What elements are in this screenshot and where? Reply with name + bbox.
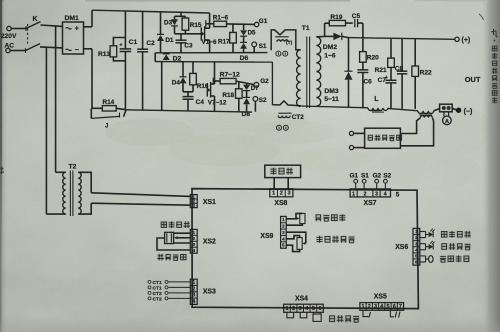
svg-text:6: 6 <box>415 260 418 265</box>
svg-text:CT1: CT1 <box>153 285 162 291</box>
svg-text:R21: R21 <box>375 67 387 74</box>
svg-text:K: K <box>33 16 38 23</box>
svg-text:L: L <box>374 96 379 103</box>
svg-text:R20: R20 <box>367 54 379 61</box>
svg-text:C6: C6 <box>363 78 372 85</box>
svg-text:1: 1 <box>361 304 364 310</box>
svg-text:D3: D3 <box>164 20 173 27</box>
svg-text:V1−6: V1−6 <box>202 39 217 46</box>
svg-text:A: A <box>445 119 449 125</box>
svg-text:1: 1 <box>415 229 418 234</box>
svg-text:D2: D2 <box>173 56 182 63</box>
svg-text:G1: G1 <box>350 173 359 180</box>
svg-text:3: 3 <box>192 293 195 299</box>
svg-text:2: 2 <box>368 304 371 310</box>
svg-text:3: 3 <box>299 306 302 312</box>
svg-text:2: 2 <box>364 191 367 197</box>
svg-text:2: 2 <box>280 191 283 197</box>
svg-text:DM1: DM1 <box>65 15 80 22</box>
svg-text:R13: R13 <box>98 51 110 58</box>
svg-text:C3: C3 <box>184 42 193 49</box>
svg-text:R15: R15 <box>190 22 202 29</box>
svg-text:−: − <box>75 47 79 54</box>
svg-text:R14: R14 <box>103 99 115 106</box>
svg-text:(+): (+) <box>462 37 471 44</box>
svg-text:CT2: CT2 <box>153 291 162 297</box>
svg-text:R18: R18 <box>222 92 234 99</box>
svg-text:2: 2 <box>292 306 295 312</box>
svg-text:G2: G2 <box>260 78 269 85</box>
svg-text:C1: C1 <box>129 39 138 46</box>
svg-text:3: 3 <box>374 304 377 310</box>
svg-text:4: 4 <box>415 247 418 252</box>
svg-text:R22: R22 <box>420 69 432 76</box>
svg-text:C4: C4 <box>196 99 205 106</box>
svg-text:S2: S2 <box>383 173 391 180</box>
svg-text:OUT: OUT <box>465 75 481 84</box>
svg-text:C7: C7 <box>378 77 387 84</box>
svg-text:XS9: XS9 <box>260 233 273 240</box>
svg-text:DM2: DM2 <box>323 44 338 51</box>
svg-text:2: 2 <box>192 236 195 242</box>
svg-text:XS8: XS8 <box>274 200 287 207</box>
svg-text:5: 5 <box>312 306 315 312</box>
svg-text:XS5: XS5 <box>374 294 387 301</box>
svg-text:G1: G1 <box>259 18 268 25</box>
svg-text:4: 4 <box>192 299 195 305</box>
svg-text:D1: D1 <box>165 37 174 44</box>
svg-text:R19: R19 <box>330 14 342 21</box>
svg-text:J: J <box>105 124 108 130</box>
svg-text:XS4: XS4 <box>295 295 308 302</box>
svg-text:D5: D5 <box>248 30 256 37</box>
svg-text:D7: D7 <box>251 85 259 92</box>
svg-text:1: 1 <box>192 280 195 286</box>
svg-text:D4: D4 <box>172 80 181 87</box>
svg-text:3: 3 <box>288 191 291 197</box>
svg-text:3: 3 <box>415 241 418 246</box>
svg-text:CT2: CT2 <box>292 114 304 121</box>
svg-text:XS2: XS2 <box>203 239 216 246</box>
svg-text:220V: 220V <box>1 33 17 40</box>
svg-text:D6: D6 <box>240 55 249 62</box>
svg-text:T2: T2 <box>69 164 77 171</box>
svg-text:T1: T1 <box>302 25 310 32</box>
svg-text:XS6: XS6 <box>395 244 408 251</box>
svg-text:6: 6 <box>318 306 321 312</box>
svg-text:DM3: DM3 <box>324 88 339 95</box>
svg-text:C5: C5 <box>352 13 361 20</box>
svg-text:CT2: CT2 <box>153 296 162 302</box>
svg-text:XS1: XS1 <box>203 199 216 206</box>
svg-text:5: 5 <box>415 254 418 259</box>
svg-text:1−6: 1−6 <box>324 52 335 59</box>
svg-text:S2: S2 <box>259 97 267 104</box>
svg-text:1: 1 <box>272 191 275 197</box>
svg-text:1: 1 <box>192 230 195 236</box>
svg-text:5: 5 <box>386 304 389 310</box>
svg-text:7: 7 <box>399 304 402 310</box>
svg-text:S1: S1 <box>361 173 369 180</box>
svg-text:AC: AC <box>5 43 15 50</box>
svg-text:4: 4 <box>384 191 387 197</box>
svg-text:5: 5 <box>396 191 400 198</box>
svg-text:1: 1 <box>352 191 355 197</box>
svg-text:S1: S1 <box>259 43 267 50</box>
svg-text:C2: C2 <box>146 40 155 47</box>
svg-text:CT1: CT1 <box>153 280 162 286</box>
svg-text:2: 2 <box>415 235 418 240</box>
svg-text:XS7: XS7 <box>364 200 377 207</box>
svg-text:C8: C8 <box>395 65 404 72</box>
svg-text:XS3: XS3 <box>203 289 216 296</box>
svg-text:4: 4 <box>192 248 195 254</box>
svg-text:3: 3 <box>375 191 378 197</box>
svg-text:R7−12: R7−12 <box>220 71 240 78</box>
svg-text:6: 6 <box>393 304 396 310</box>
svg-text:3: 3 <box>192 242 195 248</box>
svg-text:(−): (−) <box>464 108 473 115</box>
svg-text:V7−12: V7−12 <box>208 100 227 107</box>
svg-text:5−11: 5−11 <box>324 96 339 103</box>
svg-text:R1−6: R1−6 <box>213 15 229 22</box>
svg-text:G2: G2 <box>373 173 382 180</box>
svg-text:2: 2 <box>192 286 195 292</box>
svg-text:+: + <box>75 26 79 33</box>
svg-text:R17: R17 <box>218 38 230 45</box>
svg-text:(T): (T) <box>286 40 293 46</box>
svg-text:1: 1 <box>285 306 288 312</box>
